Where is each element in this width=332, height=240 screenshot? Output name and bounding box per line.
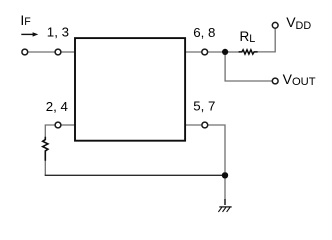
terminal: input left: [22, 49, 28, 55]
wire: IC right edge to pin 6,8 terminal: [185, 51, 202, 53]
resistor RL (load, horizontal): [239, 50, 258, 54]
wire: pin 2,4 terminal left then down to resistor: [45, 125, 55, 138]
wire: below resistor down to bottom rail corner: [44, 160, 46, 175]
wire: RL resistor to corner then up to VDD terminal: [257, 29, 275, 52]
wire: pin 1,3 terminal to IC left edge (anode): [61, 51, 75, 53]
wire: pin 2,4 terminal to IC left edge (cathode): [61, 124, 75, 126]
svg-text:6, 8: 6, 8: [193, 25, 215, 40]
ground: [218, 199, 231, 212]
arrow for IF current direction: [21, 33, 34, 35]
terminal: pin 6,8: [202, 49, 208, 55]
wire: bottom ground rail: [45, 174, 225, 176]
terminal: pin 2,4: [55, 122, 61, 128]
IC body (photocoupler): [75, 38, 185, 141]
junction dot at ground rail: [222, 172, 228, 178]
wire: IC right edge to pin 5,7 terminal: [185, 124, 202, 126]
resistor (input side, vertical): [43, 137, 48, 161]
svg-text:5, 7: 5, 7: [193, 98, 215, 113]
svg-text:2, 4: 2, 4: [46, 99, 68, 114]
wire: junction down to ground symbol: [224, 175, 226, 199]
wire: pin 6,8 terminal to junction: [208, 51, 226, 53]
wire: junction to RL resistor: [225, 51, 240, 53]
svg-text:1, 3: 1, 3: [47, 24, 69, 39]
junction dot at pin 6,8 node: [222, 49, 228, 55]
wire: pin 5,7 terminal right then down to bottom rail junction: [208, 125, 225, 172]
terminal: VDD: [272, 22, 278, 28]
terminal: pin 5,7: [202, 122, 208, 128]
terminal: VOUT: [272, 78, 278, 84]
wire: input terminal to pin 1,3 terminal: [28, 51, 56, 53]
wire: junction down then right to VOUT terminal: [225, 52, 272, 81]
terminal: pin 1,3: [55, 49, 61, 55]
